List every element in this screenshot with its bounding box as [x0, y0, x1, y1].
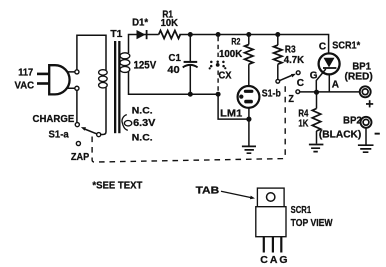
svg-text:VAC: VAC [15, 79, 35, 91]
svg-text:4.7K: 4.7K [284, 55, 305, 66]
svg-text:C1: C1 [169, 52, 181, 64]
svg-text:A: A [332, 80, 339, 91]
svg-text:40: 40 [167, 64, 179, 76]
svg-text:R2: R2 [231, 37, 240, 47]
svg-text:1K: 1K [298, 118, 309, 129]
svg-text:6.3V: 6.3V [133, 117, 155, 129]
svg-text:D1*: D1* [132, 17, 148, 28]
svg-text:TAB: TAB [196, 184, 220, 196]
svg-text:G: G [279, 254, 287, 266]
svg-text:CX: CX [219, 70, 232, 81]
svg-text:(BLACK): (BLACK) [319, 130, 361, 141]
svg-text:LM1: LM1 [220, 108, 242, 119]
svg-text:N.C.: N.C. [132, 132, 153, 143]
svg-text:S1-b: S1-b [262, 88, 281, 99]
svg-text:*SEE TEXT: *SEE TEXT [92, 179, 143, 191]
svg-text:100K: 100K [219, 49, 243, 60]
svg-text:G: G [310, 71, 318, 82]
svg-text:SCR1: SCR1 [291, 204, 312, 216]
svg-text:T1: T1 [110, 28, 122, 40]
svg-text:S1-a: S1-a [49, 129, 69, 141]
svg-text:125V: 125V [134, 60, 157, 72]
svg-text:TOP VIEW: TOP VIEW [291, 217, 333, 229]
svg-text:R3: R3 [285, 45, 296, 56]
svg-text:C: C [260, 254, 268, 266]
svg-text:(RED): (RED) [345, 71, 373, 82]
svg-text:BP2: BP2 [343, 116, 362, 127]
svg-text:C: C [319, 41, 326, 52]
svg-text:Z: Z [288, 94, 294, 105]
svg-text:A: A [270, 254, 278, 266]
svg-text:N.C.: N.C. [132, 105, 153, 116]
svg-text:C: C [297, 78, 304, 89]
svg-text:ZAP: ZAP [71, 151, 89, 163]
svg-text:SCR1*: SCR1* [332, 40, 360, 51]
svg-text:117: 117 [18, 67, 33, 79]
svg-text:CHARGE: CHARGE [33, 113, 75, 125]
svg-text:10K: 10K [161, 18, 179, 29]
